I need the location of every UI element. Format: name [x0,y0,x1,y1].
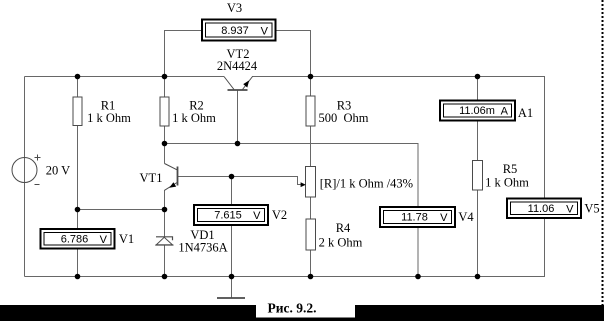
voltmeter V4 [380,207,455,227]
svg-text:V: V [261,26,269,38]
svg-text:V: V [566,204,574,216]
wire R1 to VT1 emitter [78,209,165,211]
svg-text:1N4736A: 1N4736A [178,240,227,254]
svg-text:V: V [440,212,448,224]
node VT2 base [235,141,241,147]
node V2 tap [229,174,235,180]
resistor R5 [473,161,483,191]
node R4 bottom rail [308,274,314,280]
svg-text:A1: A1 [518,106,533,120]
wire left rail [24,77,26,277]
svg-text:8.937: 8.937 [221,25,249,37]
wire V3 left lead [165,31,203,77]
svg-text:V2: V2 [272,208,287,222]
svg-text:V: V [253,210,261,222]
svg-text:VT1: VT1 [140,171,163,185]
node R3 V3 top [308,74,314,80]
wire ground lead [231,277,233,299]
node R1 top [75,74,81,80]
zener diode VD1 [155,237,173,245]
transistor VT2 emitter arrow [243,80,249,87]
wire R5 bottom lead [477,190,479,277]
node V4 bottom rail [415,274,421,280]
svg-text:1 k Ohm: 1 k Ohm [172,111,216,125]
transistor VT2 [224,77,253,91]
wire R4 bottom lead [310,250,312,277]
wire bottom rail [25,276,546,278]
svg-text:20 V: 20 V [46,164,70,178]
node R2 V3 top [162,74,168,80]
svg-text:7.615: 7.615 [214,210,242,222]
wire VD1 bottom lead [164,245,166,277]
node VT1 collector [162,141,168,147]
wire VT1 emitter lead [164,190,166,210]
node R1 bottom [75,207,81,213]
node ground rail [229,274,235,280]
wire VT1 collector lead [164,144,166,164]
wire R2 top lead [164,77,166,98]
wire base bus from R2 to V4 corner [165,144,419,208]
node R5 bottom rail [475,274,481,280]
wire R1 top lead [77,77,79,98]
resistor R4 [306,219,316,250]
wire A1 to R5 [477,121,479,161]
svg-text:2N4424: 2N4424 [217,59,258,73]
wire VD1 top lead [164,210,166,237]
svg-text:2 k Ohm: 2 k Ohm [319,236,363,250]
svg-text:V5: V5 [584,202,599,216]
wire R1 bottom lead [77,126,79,210]
node A1 top [475,74,481,80]
resistor R3 [306,96,315,126]
page border dashed right [602,0,604,305]
svg-text:1 k Ohm: 1 k Ohm [87,111,131,125]
wire V2 bottom lead [231,225,233,277]
node V1 bottom rail [75,274,81,280]
voltmeter V5 [507,199,581,219]
voltmeter V2 [194,205,268,225]
svg-text:1 k Ohm: 1 k Ohm [485,176,529,190]
wire R3 to potentiometer [310,126,312,167]
node VD1 bottom rail [162,274,168,280]
wire V1 bottom lead [77,249,79,277]
wire VT2 base lead [237,90,239,144]
voltmeter V1 [41,229,115,249]
svg-text:6.786: 6.786 [61,234,89,246]
wire R2 bottom lead [164,126,166,144]
svg-text:R5: R5 [503,162,518,176]
wire V4 bottom lead [417,227,419,277]
wire potentiometer to R4 [310,197,312,219]
voltage source 20 V [12,155,41,185]
svg-text:[R]/1 k Ohm /43%: [R]/1 k Ohm /43% [320,177,413,191]
svg-text:11.06m: 11.06m [459,105,495,117]
ammeter A1 [440,101,515,121]
wire V1 top lead [77,210,79,230]
black bottom bar [0,305,604,321]
svg-text:A: A [501,106,509,118]
wire right rail lower [544,218,546,277]
potentiometer wiper arrow [301,182,306,187]
wire R3 top lead [310,77,312,97]
resistor R1 [73,97,82,126]
svg-text:11.06: 11.06 [528,203,555,215]
wire V2 top lead [231,177,233,206]
svg-text:V4: V4 [458,210,474,224]
wire top rail left section [25,76,225,78]
transistor VT1 [165,164,178,191]
svg-text:11.78: 11.78 [401,212,428,224]
voltmeter V3 [202,20,276,41]
potentiometer R body [306,167,316,198]
wire VT1 base to potentiometer wiper [178,177,302,185]
svg-text:V3: V3 [227,1,242,15]
svg-text:Рис. 9.2.: Рис. 9.2. [268,301,317,316]
transistor VT1 emitter arrow [169,182,176,188]
resistor R2 [160,97,169,126]
wire A1 top lead [477,77,479,101]
svg-text:V1: V1 [119,232,134,246]
wire right rail upper [544,77,546,200]
node VT1 emitter [162,207,168,213]
svg-text:V: V [100,234,108,246]
svg-text:500 Ohm: 500 Ohm [319,111,369,125]
caption white notch [256,305,355,318]
ground [217,297,245,299]
wire top rail right section [252,76,545,78]
svg-text:R4: R4 [336,221,351,235]
wire V3 right lead [275,31,311,77]
